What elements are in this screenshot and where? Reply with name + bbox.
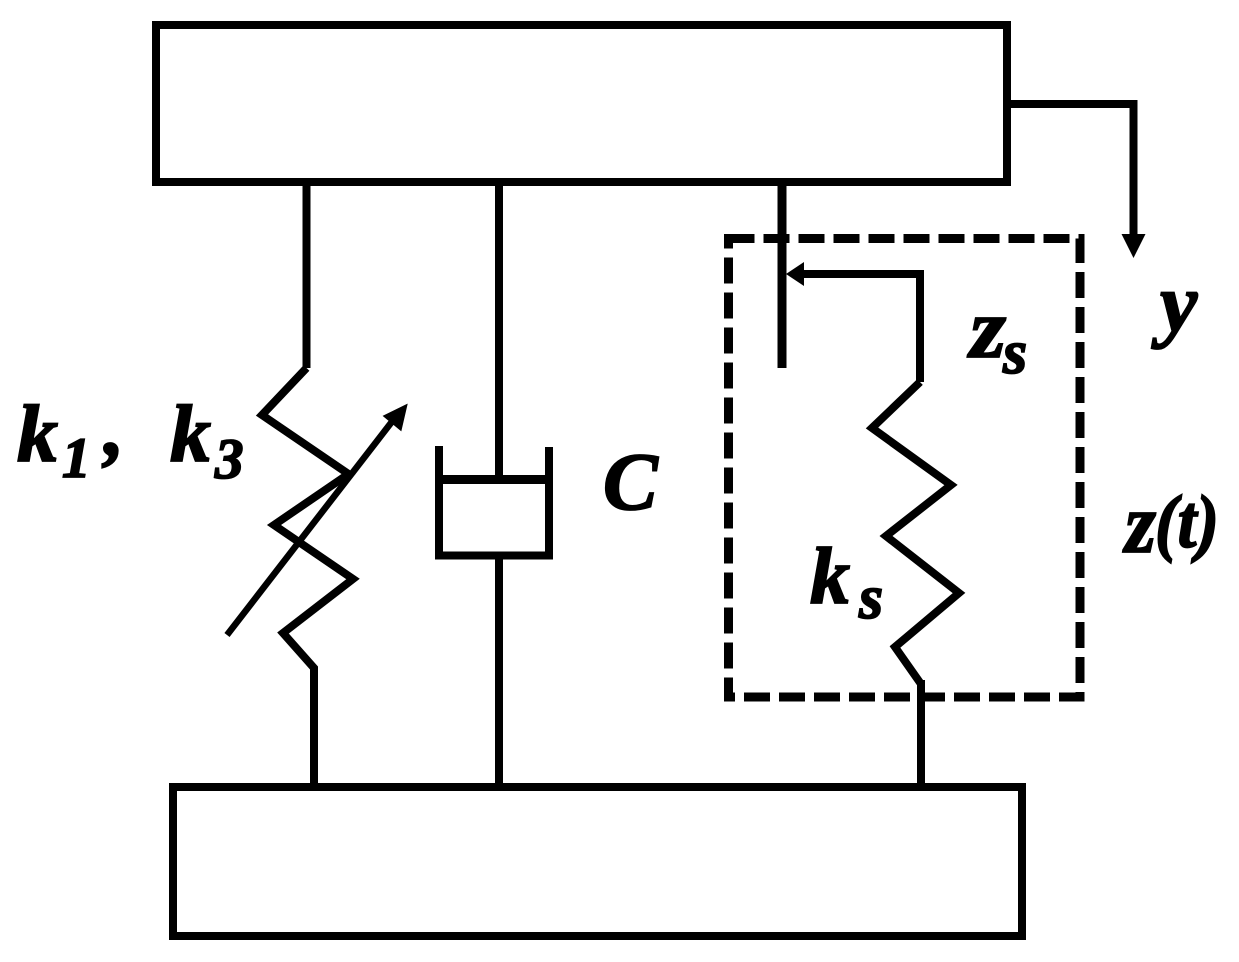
spring ks: [872, 382, 959, 684]
svg-text:z: z: [967, 282, 1006, 376]
base (bottom block): [173, 787, 1022, 936]
wire: damper to base: [495, 556, 503, 787]
svg-text:y: y: [1151, 257, 1198, 350]
svg-text:C: C: [603, 436, 659, 527]
svg-text:3: 3: [214, 428, 244, 491]
wire: mass to damper rod: [495, 182, 503, 479]
wire: spring ks to base: [917, 680, 925, 787]
svg-text:k: k: [170, 388, 211, 479]
svg-text:k: k: [17, 388, 58, 479]
y displacement arrow: [1011, 104, 1134, 236]
svg-text:k: k: [810, 533, 850, 621]
wire: mass to spring k1,k3: [303, 182, 311, 368]
svg-text:z: z: [1122, 477, 1156, 571]
damper C piston plate: [435, 475, 553, 484]
svg-text:s: s: [1002, 319, 1027, 387]
wire: spring k1,k3 to base: [310, 671, 318, 787]
svg-text:1: 1: [62, 427, 91, 490]
svg-text:(t): (t): [1155, 481, 1219, 564]
wire: mass into dashed sensor box: [778, 182, 787, 368]
spring k1,k3 (nonlinear): [262, 368, 353, 675]
arrow through spring (variable): [227, 419, 394, 635]
dashed box (sensor): [729, 239, 1081, 698]
damper C cylinder cup: [439, 446, 549, 556]
mass M (top block): [156, 25, 1007, 182]
svg-text:,: ,: [102, 382, 125, 473]
svg-text:s: s: [858, 564, 883, 632]
arrow zs (left pointing): [800, 274, 920, 382]
